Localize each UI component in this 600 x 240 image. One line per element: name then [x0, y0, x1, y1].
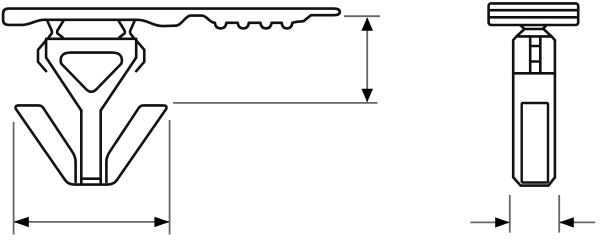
bottom sweep joining wing tips and stem foot: [65, 180, 117, 185]
hinge right (hourglass link): [118, 20, 134, 37]
shoulder flare: [513, 29, 555, 40]
tapered bottom: [513, 177, 555, 185]
arrowhead body outline with funnel and stem: [46, 39, 136, 111]
strap bar inner line 2: [489, 16, 578, 19]
hinge left (hourglass link): [47, 20, 63, 37]
stem foot cap line: [81, 111, 100, 184]
arrowhead left of body-width dimension: [495, 217, 510, 227]
extension line right of body-width dimension: [558, 195, 560, 233]
extension line right of wing-span dimension: [169, 120, 171, 235]
strap cross-section bar (end view): [489, 3, 579, 25]
barb ear left: [38, 40, 46, 71]
wing-span dimension line: [14, 221, 170, 223]
window in lower body: [522, 103, 548, 183]
arrowhead right of wing-span dimension: [154, 217, 169, 227]
strap (side view, serrated tie band): [3, 9, 340, 29]
inner triangular opening: [61, 53, 122, 92]
height dimension line: [366, 18, 368, 102]
arrowhead top of height dimension: [361, 17, 373, 30]
strap bar inner line 1: [489, 9, 578, 12]
extension line bottom of height dimension: [173, 102, 378, 104]
extension line left of wing-span dimension: [13, 122, 15, 235]
arrowhead bottom of height dimension: [361, 89, 373, 102]
arrowhead left of wing-span dimension: [14, 217, 29, 227]
extension line top of height dimension: [344, 15, 380, 17]
body-width dimension line left tail: [470, 221, 510, 223]
neck below bar: [520, 25, 546, 29]
body-width dimension line right tail: [559, 221, 595, 223]
wing left top and inner edge: [16, 105, 76, 182]
body mid line: [513, 72, 555, 75]
extension line left of body-width dimension: [509, 195, 511, 233]
arrowhead right of body-width dimension: [559, 217, 574, 227]
body sides (end view): [513, 40, 555, 177]
barb ear right: [136, 40, 144, 71]
wing right top and inner edge: [106, 105, 166, 182]
hinge ladder (end view): [530, 36, 540, 73]
